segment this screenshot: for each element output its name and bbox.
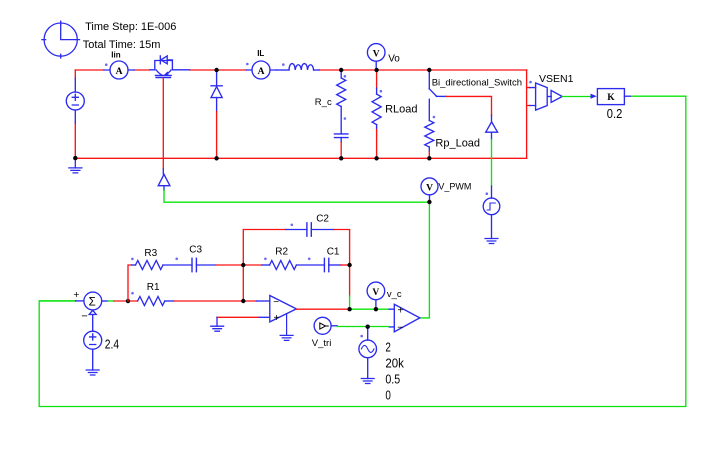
ground (sine source) <box>361 379 374 384</box>
wire C to rail <box>340 143 342 159</box>
wire R1 to op-amp <box>174 300 257 302</box>
svg-text:R1: R1 <box>147 282 160 293</box>
svg-text:R_c: R_c <box>315 97 332 108</box>
svg-text:0: 0 <box>385 387 391 402</box>
comparator U2 <box>389 304 420 332</box>
svg-text:−: − <box>273 297 279 308</box>
svg-text:Iin: Iin <box>111 51 120 60</box>
sensor VSEN1 <box>527 83 563 110</box>
voltmeter Vo <box>367 44 385 70</box>
svg-text:IL: IL <box>257 49 264 58</box>
resistor R2 <box>243 261 324 270</box>
arrowhead into K <box>591 94 597 99</box>
wire switch gate horizontal <box>446 96 492 115</box>
marker dots (R3 C3) <box>131 258 178 261</box>
resistor RLoad <box>372 70 381 158</box>
source sine V_tri generator <box>359 328 377 379</box>
clock simulation-control icon <box>42 21 80 58</box>
resistor R1 <box>138 297 174 306</box>
wire C3 to node <box>216 264 244 266</box>
ground (input source) <box>69 158 82 173</box>
svg-text:C3: C3 <box>189 245 202 256</box>
summer U_sum <box>39 289 108 323</box>
transistor MOSFET switch <box>150 56 190 78</box>
wire C2 right to vertical <box>334 230 350 297</box>
marker dot (sine) <box>360 335 363 338</box>
ammeter Iin <box>104 61 134 79</box>
svg-text:20k: 20k <box>385 356 404 371</box>
wire input source branch <box>74 70 76 158</box>
svg-text:A: A <box>258 67 265 77</box>
svg-text:0.5: 0.5 <box>385 372 400 387</box>
svg-text:A: A <box>116 67 123 77</box>
marker dot (Iin) <box>105 63 108 66</box>
marker dot (RLoad) <box>380 90 383 93</box>
svg-text:C1: C1 <box>327 247 340 258</box>
gain block K <box>597 89 631 105</box>
probe V_tri <box>314 317 337 334</box>
marker dot (C2) <box>291 224 294 227</box>
svg-text:R3: R3 <box>144 248 157 259</box>
wire op-amp + input <box>217 316 258 318</box>
wire comparator output up green <box>420 202 430 318</box>
resistor Rp_Load <box>425 121 434 159</box>
svg-text:Rp_Load: Rp_Load <box>435 138 480 150</box>
resistor R_c <box>337 70 346 134</box>
svg-text:0.2: 0.2 <box>607 106 623 121</box>
wire C1 to vertical <box>341 264 350 266</box>
voltmeter V_PWM <box>421 178 438 201</box>
wire V_tri to comparator green <box>337 326 389 328</box>
wire C2 loop left vertical <box>243 230 286 302</box>
ammeter IL <box>246 61 276 79</box>
voltmeter v_c <box>367 282 385 308</box>
svg-text:VSEN1: VSEN1 <box>539 73 574 85</box>
inductor L <box>277 64 320 70</box>
svg-text:V: V <box>426 183 433 193</box>
source Vref 2.4 <box>84 315 102 371</box>
wire feedback loop green <box>39 96 686 406</box>
node V_PWM junction <box>427 200 431 204</box>
gating block (switch gate arrow) <box>486 115 498 139</box>
svg-text:Σ: Σ <box>89 297 96 309</box>
svg-text:V_PWM: V_PWM <box>438 182 471 192</box>
ground (op-amp + input) <box>211 317 224 331</box>
marker dot (L) <box>282 63 285 66</box>
wire bottom rail <box>75 157 526 159</box>
svg-text:+: + <box>73 289 79 301</box>
svg-text:Total Time: 15m: Total Time: 15m <box>83 39 161 51</box>
junction dots power <box>73 68 431 161</box>
svg-text:RLoad: RLoad <box>385 103 417 115</box>
wire top rail red segments <box>75 69 526 71</box>
ground (op-amp bottom) <box>280 314 293 341</box>
resistor R3 <box>132 261 193 270</box>
arrow into summer bottom <box>89 310 96 314</box>
wire gating green <box>491 140 493 187</box>
switch Bi_directional_Switch <box>429 70 446 120</box>
source step gating <box>483 186 500 238</box>
marker dot (R1) <box>131 292 134 295</box>
wire summer output <box>108 300 138 302</box>
gating block (MOSFET gate arrow) <box>158 174 170 190</box>
op-amp U1 <box>256 296 296 322</box>
ground (Vref) <box>86 370 99 375</box>
comparator input signs <box>397 305 403 333</box>
node summer output junction <box>126 299 130 303</box>
svg-text:−: − <box>81 311 87 323</box>
svg-text:v_c: v_c <box>387 289 402 300</box>
capacitor C3 <box>192 258 216 271</box>
svg-text:C2: C2 <box>316 214 329 225</box>
wire op-amp output <box>296 308 349 310</box>
svg-text:R2: R2 <box>275 247 288 258</box>
svg-text:2.4: 2.4 <box>105 337 119 352</box>
svg-text:V_tri: V_tri <box>312 338 332 349</box>
svg-text:Bi_directional_Switch: Bi_directional_Switch <box>432 78 522 89</box>
ground (step source) <box>485 239 498 244</box>
diode D freewheeling <box>211 70 222 158</box>
marker dot (Rp_Load) <box>433 116 436 119</box>
svg-text:2: 2 <box>385 340 391 355</box>
svg-text:+: + <box>274 313 280 324</box>
capacitor C1 <box>324 258 341 271</box>
svg-text:+: + <box>398 305 404 316</box>
wire MOSFET gate <box>162 78 164 174</box>
svg-text:−: − <box>397 322 403 333</box>
marker dot (step source) <box>486 192 489 195</box>
wire right loop vertical <box>526 70 528 158</box>
marker dot (IL) <box>246 63 249 66</box>
svg-text:Time Step: 1E-006: Time Step: 1E-006 <box>85 21 176 33</box>
svg-text:K: K <box>607 93 615 103</box>
svg-text:V: V <box>373 49 380 59</box>
wire PWM gate line green <box>164 190 429 202</box>
op-amp input signs <box>273 297 279 324</box>
marker dots (R2 C1) <box>264 258 310 261</box>
capacitor C (output) <box>335 134 348 143</box>
wire vertical green to output node <box>349 296 351 309</box>
wire R3 branch vertical <box>128 265 132 301</box>
junction dots control <box>241 263 378 329</box>
marker dot (VSEN1) <box>529 81 532 84</box>
capacitor C2 <box>286 223 334 236</box>
svg-text:Vo: Vo <box>388 54 400 65</box>
wire VSEN1 to K <box>562 96 591 98</box>
marker dots (R_c branch) <box>344 75 347 120</box>
wire output to comparator green <box>350 308 390 310</box>
voltage source Vin <box>66 92 84 110</box>
svg-text:V: V <box>372 288 379 298</box>
